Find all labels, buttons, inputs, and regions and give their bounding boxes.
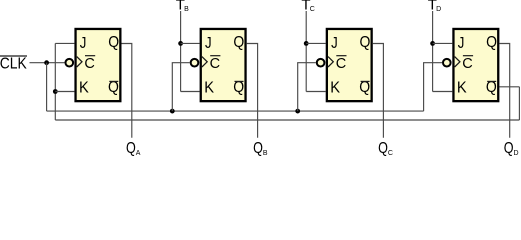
pin label Q-bar (U1)	[108, 79, 119, 96]
svg-text:C: C	[310, 6, 315, 13]
svg-text:D: D	[436, 6, 441, 13]
pin label C-bar inverted clock (U2)	[210, 56, 221, 72]
wire: TB vertical to U2 J and K	[180, 11, 182, 92]
svg-text:B: B	[184, 6, 189, 13]
net label CLK (active-low clock input)	[0, 55, 27, 72]
junction: clock bus tap to U2	[170, 109, 175, 114]
wire: CLK to U1 clock bubble	[30, 62, 65, 64]
svg-text:Q: Q	[126, 140, 136, 157]
svg-text:C: C	[84, 56, 94, 72]
svg-text:K: K	[330, 79, 340, 96]
svg-text:J: J	[205, 35, 212, 52]
pin label C-bar inverted clock (U3)	[336, 56, 347, 72]
svg-text:Q: Q	[233, 34, 244, 51]
net label TB (toggle input)	[176, 0, 189, 14]
U1 clock inversion bubble	[66, 59, 74, 67]
wire: U4 J input	[433, 42, 453, 44]
wire: U4 Q-bar output	[499, 86, 519, 88]
wire: clock bus riser to U2 clock bubble	[172, 63, 189, 111]
svg-text:J: J	[80, 35, 87, 52]
pin label Q-bar (U2)	[233, 79, 244, 96]
wire: U1 K input	[55, 91, 74, 93]
wire: U4 Q output to QD	[499, 44, 509, 138]
wire: U3 J input	[306, 42, 326, 44]
wire: clock bus (CLK distribution)	[47, 110, 424, 112]
wire: Q-bar feedback riser (right edge)	[518, 87, 520, 120]
wire: U1 J-K tie down to feedback bus	[54, 43, 56, 120]
svg-text:Q: Q	[486, 34, 497, 51]
U2 clock inversion bubble	[191, 59, 199, 67]
svg-text:K: K	[79, 79, 89, 96]
wire: U4 K input	[433, 91, 453, 93]
wire: U1 Q output to QA	[122, 44, 132, 138]
svg-text:C: C	[462, 56, 472, 72]
U4 dynamic clock-edge triangle	[455, 57, 460, 67]
U1 dynamic clock-edge triangle	[77, 57, 82, 67]
pin label Q-bar (U4)	[486, 79, 497, 96]
junction: TD to U4 J	[430, 41, 435, 46]
svg-text:Q: Q	[253, 140, 263, 157]
wire: clock bus riser to U3 clock bubble	[298, 63, 316, 111]
flip-flop U2 body	[201, 29, 246, 101]
flip-flop U4 body	[453, 29, 498, 101]
svg-text:CLK: CLK	[0, 55, 27, 72]
svg-text:J: J	[458, 35, 465, 52]
svg-text:C: C	[388, 150, 393, 157]
wire: U2 Q output to QB	[247, 44, 258, 138]
junction: TB to U2 J	[178, 41, 183, 46]
svg-text:A: A	[136, 150, 141, 157]
pin label C-bar inverted clock (U4)	[462, 56, 473, 72]
net label QC (output)	[378, 140, 393, 157]
U4 clock inversion bubble	[443, 59, 451, 67]
wire: U1 J input	[55, 42, 74, 44]
wire: feedback bus (Q-bar D to U1 J-K)	[55, 119, 519, 121]
junction: CLK node	[44, 60, 49, 65]
net label TD (toggle input)	[428, 0, 441, 14]
pin label C-bar inverted clock (U1)	[84, 56, 95, 72]
flip-flop U1 body	[76, 29, 121, 101]
wire: clock bus riser to U4 clock bubble	[424, 63, 442, 111]
svg-text:Q: Q	[108, 34, 119, 51]
wire: U3 K input	[306, 91, 326, 93]
wire: TD vertical to U4 J and K	[432, 11, 434, 92]
net label QD (output)	[504, 140, 519, 157]
svg-text:C: C	[210, 56, 220, 72]
svg-text:B: B	[263, 150, 268, 157]
net label TC (toggle input)	[301, 0, 314, 14]
flip-flop U3 body	[327, 29, 372, 101]
svg-text:Q: Q	[504, 140, 514, 157]
wire: CLK node drop to clock bus	[46, 63, 48, 111]
wire: U2 K input	[181, 91, 200, 93]
wire: TC vertical to U3 J and K	[305, 11, 307, 92]
junction: clock bus tap to U3	[295, 109, 300, 114]
U3 clock inversion bubble	[317, 59, 325, 67]
svg-text:J: J	[331, 35, 338, 52]
svg-text:K: K	[457, 79, 467, 96]
net label QB (output)	[253, 140, 268, 157]
U3 dynamic clock-edge triangle	[328, 57, 333, 67]
svg-text:C: C	[336, 56, 346, 72]
svg-text:D: D	[514, 150, 519, 157]
net label QA (output)	[126, 140, 141, 157]
wire: U3 Q output to QC	[373, 44, 384, 138]
pin label Q-bar (U3)	[359, 79, 370, 96]
wire: U2 J input	[181, 42, 200, 44]
svg-text:Q: Q	[360, 34, 371, 51]
U2 dynamic clock-edge triangle	[202, 57, 207, 67]
svg-text:Q: Q	[378, 140, 388, 157]
junction: TC to U3 J	[304, 41, 309, 46]
svg-text:K: K	[204, 79, 214, 96]
junction: U1 K tap	[53, 89, 58, 94]
